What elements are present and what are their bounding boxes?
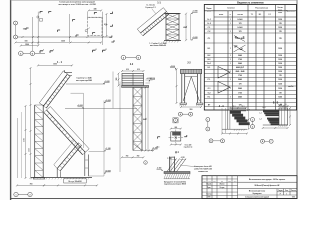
svg-text:178: 178 (279, 38, 282, 40)
plan angle symbol 7 (76, 35, 79, 37)
detail B-B bottom hatch (278, 125, 281, 127)
svg-text:Ограждение: Ограждение (252, 193, 261, 195)
svg-text:2: 2 (106, 49, 107, 51)
svg-text:+5.000: +5.000 (192, 37, 197, 39)
svg-text:+9.350: +9.350 (192, 11, 197, 13)
svg-text:А - А: А - А (219, 105, 225, 108)
svg-text:ГОСТ: ГОСТ (262, 107, 266, 109)
svg-text:Кол-во: Кол-во (278, 7, 283, 9)
plan small node detail circle (37, 16, 39, 18)
svg-text:Петров: Петров (220, 187, 225, 189)
big section top dim line (38, 64, 72, 66)
plan section cut mark 2 right (103, 50, 106, 52)
detail D-1 anchor bolts (167, 159, 177, 172)
detail A-A dim extension left (225, 108, 227, 133)
big section right dim vertical x120 (119, 82, 121, 173)
svg-text:2640: 2640 (238, 62, 242, 65)
svg-text:+0.000: +0.000 (170, 157, 175, 159)
svg-text:сов.Пм: сов.Пм (288, 86, 293, 88)
plan main line ticks (22, 36, 24, 38)
svg-text:Б-3: Б-3 (208, 59, 211, 61)
svg-text:состав: состав (237, 14, 242, 16)
svg-text:2640: 2640 (238, 54, 242, 57)
svg-text:178: 178 (279, 31, 282, 33)
svg-text:В-1: В-1 (259, 14, 262, 16)
plan angle symbol 3 (26, 28, 29, 30)
svg-text:низ балки 2640х60: низ балки 2640х60 (150, 44, 166, 47)
plan angle symbol 4 (58, 30, 61, 32)
svg-text:750: 750 (126, 156, 129, 158)
big section axis circle bottom 1 (14, 192, 18, 196)
svg-text:178: 178 (239, 31, 242, 33)
svg-text:Ст-2: Ст-2 (207, 23, 211, 25)
big section lower flight (47, 110, 86, 152)
svg-text:1230: 1230 (61, 41, 65, 43)
section 1-1 tower top chord (165, 12, 181, 14)
section 1-1 tower base (164, 40, 181, 42)
portal frame left column (181, 74, 183, 103)
elements table sketch triangle 1 (218, 67, 230, 79)
big section return flight bottom post (56, 169, 58, 178)
elements table data rows (204, 20, 296, 22)
svg-text:Сечение: Сечение (227, 8, 234, 10)
base plate plan dim bottom (171, 144, 181, 146)
plan axis circle C (19, 51, 24, 56)
big section bottom dim label box (64, 179, 86, 183)
plan dim line above axis circles (21, 45, 39, 47)
plan vertical line x87 (87, 12, 89, 18)
base plate plan angle symbol left (158, 137, 161, 139)
svg-text:затяжка гаек: затяжка гаек (198, 171, 208, 173)
middle truss column (132, 87, 134, 150)
svg-text:1200: 1200 (278, 79, 282, 81)
svg-text:1: 1 (230, 97, 231, 99)
svg-text:L-1: L-1 (259, 113, 261, 115)
plan angle symbol 1 (40, 11, 43, 13)
svg-text:-0.150: -0.150 (157, 168, 162, 170)
svg-text:2640: 2640 (238, 87, 242, 90)
svg-text:2: 2 (30, 194, 31, 196)
svg-text:1: 1 (230, 79, 231, 81)
title block stage grid (276, 189, 278, 199)
svg-text:178: 178 (279, 93, 282, 95)
middle dim line below column (142, 150, 153, 152)
base plate plan dark top strip (173, 132, 181, 135)
portal frame bracing (183, 77, 191, 102)
plan gridline vertical edge (37, 12, 39, 45)
svg-text:Отв. d20: Отв. d20 (185, 144, 192, 146)
detail A-A bottom hatch (234, 129, 235, 131)
svg-text:2: 2 (15, 37, 16, 39)
big section level flag upper (103, 82, 104, 84)
big section left truss column (34, 105, 36, 178)
middle axis circle left (121, 55, 126, 60)
svg-text:Р: Р (280, 193, 281, 195)
svg-text:1200: 1200 (278, 59, 282, 61)
big section mid leader line (71, 92, 84, 94)
svg-text:2640 - 2640: 2640 - 2640 (235, 70, 244, 73)
svg-text:элем.: элем. (278, 12, 283, 14)
plan horizontal dash line upper (89, 17, 102, 19)
middle axis connecting line (126, 57, 136, 59)
section 1-1 base hatch (163, 41, 164, 43)
svg-text:Лист: Лист (213, 181, 216, 183)
svg-text:1: 1 (230, 55, 231, 57)
svg-text:С-1: С-1 (268, 14, 271, 16)
title block left grid rows (202, 178, 238, 180)
svg-text:Примечание: Примечание (286, 11, 295, 13)
svg-text:n: n (230, 14, 231, 16)
svg-text:+5.000: +5.000 (104, 81, 109, 83)
middle landing beam (122, 86, 149, 88)
svg-text:Г: Г (271, 141, 272, 143)
title block outer border (202, 176, 297, 199)
svg-text:L-2: L-2 (259, 119, 261, 121)
big section level line mid (65, 107, 137, 109)
big section long vertical extension x104 (103, 101, 105, 177)
svg-text:Ст-1: Ст-1 (207, 19, 211, 21)
svg-text:1500: 1500 (53, 63, 57, 65)
base plate plan bolt cross (175, 137, 177, 139)
detail B-B tread bands group1 (263, 110, 279, 112)
svg-text:178: 178 (279, 75, 282, 77)
svg-text:178: 178 (279, 23, 282, 25)
portal frame top beam (181, 69, 202, 73)
plan gridline vertical B (31, 17, 33, 51)
svg-text:Подп: Подп (228, 181, 231, 183)
big section level line +5.000 upper (66, 83, 105, 85)
svg-text:1200: 1200 (278, 83, 282, 85)
svg-text:550: 550 (190, 109, 193, 111)
elements table outer border (204, 5, 296, 111)
big section small view circle (144, 161, 148, 165)
svg-text:по сх.: по сх. (278, 9, 283, 11)
elements table column lines (227, 11, 229, 110)
middle column base panel diagonal (133, 144, 142, 151)
elements table header group line Sechenie (213, 5, 215, 111)
detail A-A dim top (230, 107, 246, 109)
svg-text:Изм: Изм (203, 181, 205, 183)
detail D-1 concrete hatch (164, 174, 166, 179)
big section bottom axis dim line (17, 184, 44, 186)
svg-text:178: 178 (239, 83, 242, 85)
big section upper flight (44, 74, 68, 106)
base plate plan centerlines (169, 137, 184, 139)
detail A-A platform top lines (230, 108, 246, 110)
svg-text:2640: 2640 (238, 78, 242, 81)
svg-text:1200: 1200 (278, 67, 282, 69)
svg-text:345: 345 (94, 8, 97, 11)
plan main horizontal axis line (18, 36, 113, 38)
section 1-1 stair flight (141, 12, 167, 34)
svg-text:Б-1: Б-1 (208, 48, 211, 50)
svg-text:1-1: 1-1 (157, 1, 161, 4)
svg-text:2: 2 (207, 129, 208, 131)
svg-text:2.0: 2.0 (280, 104, 282, 106)
big section left column base plate (33, 178, 45, 180)
svg-text:Марка: Марка (207, 8, 212, 10)
svg-text:L63х5: L63х5 (238, 19, 243, 21)
big section dim verticals left (25, 106, 27, 178)
svg-text:1200: 1200 (278, 19, 282, 21)
svg-text:2.0: 2.0 (285, 104, 287, 106)
svg-text:1: 1 (230, 88, 231, 90)
plan angle symbol 8 (110, 24, 113, 26)
svg-text:ГИП: ГИП (208, 197, 211, 199)
svg-text:3: 3 (252, 119, 253, 121)
plan dim line bottom (16, 42, 102, 44)
svg-text:Пров.: Пров. (207, 187, 211, 189)
detail B-B dim right (289, 108, 291, 125)
svg-text:подливка раствором М100: подливка раствором М100 (164, 184, 186, 186)
big section level flag 0.000 (104, 172, 105, 174)
portal frame base plates (180, 103, 187, 104)
svg-text:910: 910 (104, 24, 107, 26)
svg-text:1200: 1200 (278, 48, 282, 50)
svg-text:Б - Б: Б - Б (273, 103, 279, 105)
svg-text:1: 1 (43, 50, 44, 52)
svg-text:1240: 1240 (278, 96, 282, 99)
base plate plan outer square (171, 132, 181, 141)
sheet frame top border (11, 0, 297, 1)
svg-text:1 - 1: 1 - 1 (57, 61, 63, 64)
svg-text:лестницы с отм. 5.000 на отм.: лестницы с отм. 5.000 на отм. +9.350 (58, 4, 96, 6)
detail B-B top dims (279, 105, 288, 107)
svg-text:±0.000: ±0.000 (105, 170, 110, 172)
middle dim line right of column (145, 87, 147, 150)
svg-text:эскиз: эскиз (219, 14, 224, 16)
svg-text:О-2: О-2 (208, 93, 211, 95)
big section base hatch (31, 178, 32, 180)
svg-text:+1.160: +1.160 (105, 148, 110, 150)
plan axis line vertical (15, 25, 17, 35)
svg-text:Расстояние,мм: Расстояние,мм (255, 8, 268, 10)
base plate plan dim top (171, 128, 181, 130)
big section upper flight landing hook (65, 72, 73, 74)
svg-text:1: 1 (15, 23, 16, 25)
svg-text:4640 (4) П: 4640 (4) П (236, 66, 245, 69)
section 1-1 level flag +5.000 (191, 39, 192, 41)
svg-text:1200: 1200 (278, 63, 282, 65)
big section axis circle bottom 2 (28, 192, 32, 196)
svg-text:Н-1: Н-1 (208, 67, 211, 69)
portal frame level flags left (175, 68, 176, 70)
middle stair tread stack (122, 74, 144, 86)
detail A-A stringer left edge (227, 110, 229, 129)
middle level flag beam right (149, 80, 150, 82)
sheet frame right border (296, 0, 298, 199)
svg-text:Н.контр.: Н.контр. (206, 193, 212, 195)
svg-text:750: 750 (137, 156, 140, 158)
portal frame detail marker circle in box (174, 118, 178, 122)
svg-text:4140: 4140 (29, 148, 31, 152)
plan angle symbol 6 (94, 12, 97, 14)
svg-text:1200: 1200 (278, 88, 282, 90)
plan dim line top (89, 10, 102, 12)
svg-text:178: 178 (239, 23, 242, 25)
svg-text:1200: 1200 (278, 27, 282, 29)
sheet frame bottom border (11, 198, 297, 200)
detail D-1 level flag (162, 169, 163, 171)
svg-text:Листов: Листов (291, 190, 296, 192)
portal frame bottom dim (181, 106, 201, 108)
svg-text:1: 1 (230, 59, 231, 61)
svg-text:+5.000: +5.000 (77, 105, 83, 107)
plan section cut mark 2 left (93, 50, 96, 52)
big section level flag +1.160 on x104 (89, 150, 104, 152)
svg-text:+5.000: +5.000 (170, 66, 175, 68)
detail B-B axis circles bottom pair (261, 139, 265, 143)
svg-text:300: 300 (116, 78, 118, 81)
portal frame dim line left (176, 69, 178, 103)
svg-text:910: 910 (137, 69, 140, 71)
svg-text:Ведомость элементов: Ведомость элементов (237, 1, 264, 4)
plan section cut mark 1 right (50, 51, 53, 53)
middle dim line bottom (122, 156, 144, 158)
svg-text:+4.530: +4.530 (146, 77, 151, 80)
plan axis circle A (14, 21, 18, 25)
detail A-A bottom line (222, 128, 247, 130)
portal frame right column (196, 74, 198, 103)
section 1-1 truss tower (165, 14, 167, 41)
detail B-B bottom line (263, 124, 288, 126)
plan vertical right edge line (102, 12, 104, 45)
title block object name cell (238, 188, 297, 190)
plan platform rect dash (88, 17, 103, 35)
svg-text:150: 150 (23, 29, 26, 31)
svg-text:1: 1 (53, 50, 54, 52)
detail D-1 base plate (164, 172, 190, 174)
elements table header row lines (204, 10, 296, 12)
svg-text:1760: 1760 (238, 59, 242, 61)
plan angle symbol 2 (49, 11, 52, 13)
sheet frame left border (10, 0, 12, 200)
svg-text:1760: 1760 (238, 93, 242, 95)
plan angle symbol 10 (111, 40, 114, 42)
svg-text:Стадия: Стадия (278, 190, 283, 192)
elements table sketch triangle 2 (218, 82, 230, 94)
elements table sketch row 33-43 diagonal (234, 36, 245, 42)
plan dim vertical right (106, 14, 108, 36)
svg-text:+5.000: +5.000 (105, 100, 111, 102)
plan section cut mark 1 left (40, 51, 43, 53)
detail A-A axis circles bottom pair (209, 139, 213, 143)
section 1-1 dim line right (185, 14, 187, 41)
svg-text:О-1: О-1 (208, 88, 211, 90)
middle axis circle right (136, 55, 141, 60)
svg-text:1: 1 (230, 19, 231, 21)
svg-text:2640: 2640 (238, 96, 242, 99)
big section level flag +5.000 right (104, 101, 105, 103)
svg-text:С-2: С-2 (208, 31, 211, 33)
svg-text:низ стрингера 2640: низ стрингера 2640 (76, 79, 92, 82)
svg-text:1200: 1200 (278, 55, 282, 57)
svg-text:750: 750 (30, 184, 33, 186)
svg-text:Т-1: Т-1 (251, 14, 254, 16)
section 1-1 level flag mid (191, 12, 192, 14)
svg-text:П-1: П-1 (208, 97, 211, 99)
svg-text:Стрингер С-1: Стрингер С-1 (145, 7, 155, 9)
middle level flag +1.160 (151, 149, 152, 151)
big section ground base line (31, 177, 92, 179)
detail B-B dim bottom (263, 127, 288, 129)
svg-text:1: 1 (230, 63, 231, 65)
svg-text:Св-1: Св-1 (207, 63, 211, 65)
svg-text:М-1: М-1 (157, 147, 160, 149)
svg-text:Б-2: Б-2 (208, 55, 211, 57)
svg-text:1: 1 (145, 162, 146, 164)
title block designation cell (238, 181, 297, 183)
base plate plan angle symbol right (184, 135, 187, 137)
svg-text:1500: 1500 (25, 44, 29, 46)
svg-text:1: 1 (230, 48, 231, 50)
svg-text:1: 1 (230, 31, 231, 33)
svg-text:910: 910 (126, 69, 129, 71)
svg-text:1200: 1200 (278, 71, 282, 73)
svg-text:20.1: 20.1 (233, 106, 236, 108)
plan angle symbol 9 (93, 33, 96, 35)
big section lower flight end post (84, 151, 86, 176)
svg-text:Дата: Дата (234, 181, 237, 183)
middle dim line above treads (122, 70, 144, 72)
svg-text:Схема расположения конструкций: Схема расположения конструкций (59, 1, 95, 4)
title block left grid columns (206, 176, 208, 199)
plan angle symbol 5 (73, 20, 76, 22)
plan axis circle B (14, 35, 18, 39)
svg-text:Кол: Кол (208, 181, 210, 183)
plan axis D stub right (35, 52, 45, 54)
svg-text:Иванов: Иванов (220, 184, 225, 186)
middle treads left dim line (118, 74, 120, 86)
svg-text:Р-1: Р-1 (208, 79, 211, 81)
detail B-B right vertical member box (279, 108, 288, 125)
svg-text:С-1: С-1 (208, 27, 211, 29)
svg-text:1: 1 (16, 194, 17, 196)
big section bottom dim line (44, 184, 97, 186)
detail A-A dim bottom (222, 133, 247, 135)
detail B-B tread bands group2 (267, 118, 279, 120)
detail D-1 leader lines and notes (180, 165, 196, 167)
big section return flight (57, 143, 78, 169)
plan node circle right (85, 30, 87, 32)
plan axis circle D (30, 51, 35, 56)
svg-text:20.1: 20.1 (242, 106, 245, 108)
svg-text:элем.: элем. (207, 11, 212, 13)
svg-text:1760: 1760 (238, 75, 242, 77)
portal frame axis circles (178, 112, 182, 116)
svg-text:2: 2 (96, 49, 97, 51)
portal frame base hatch (179, 105, 182, 107)
svg-text:L63х5: L63х5 (238, 27, 243, 29)
svg-text:ООО: ООО (292, 196, 295, 198)
elements table sketch row 43-53 cross (234, 45, 246, 52)
plan axis line between C and D (23, 52, 30, 54)
svg-text:1: 1 (175, 120, 176, 122)
detail A-A dim right (248, 110, 250, 129)
svg-text:1600: 1600 (24, 138, 26, 142)
svg-text:Ст-1 (Ст-2): Ст-1 (Ст-2) (146, 5, 155, 7)
big section axis circles connecting line (18, 194, 28, 196)
svg-text:1: 1 (230, 23, 231, 25)
detail A-A tread bands (230, 111, 241, 114)
big section level flag mid A (83, 107, 84, 109)
detail A-A axis circles right pair (251, 118, 255, 122)
svg-text:Лист: Лист (285, 190, 288, 192)
detail A-A axis circles left pair (206, 118, 210, 122)
detail D-1 column stub (169, 157, 171, 172)
svg-text:Л-1: Л-1 (208, 38, 211, 40)
svg-text:150: 150 (25, 41, 28, 43)
